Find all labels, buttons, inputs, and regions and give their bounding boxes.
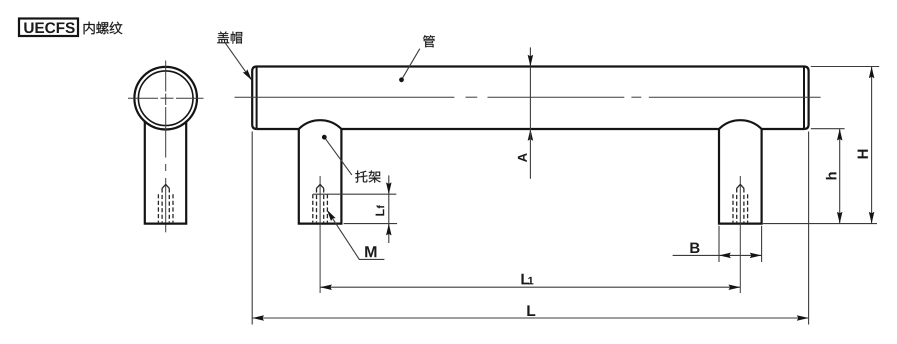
leader line for tube label: [402, 49, 420, 80]
label 托架: [355, 171, 367, 183]
tube outline: [252, 67, 808, 130]
thread side view major dia hidden lines: [157, 194, 159, 222]
label B: [690, 243, 699, 253]
side view stem left edge: [144, 122, 146, 223]
L right extension line: [808, 132, 810, 325]
side view stem right edge: [185, 122, 187, 223]
right cap seam: [803, 67, 805, 129]
dimension A line through tube: [529, 67, 531, 130]
right bracket dome top: [719, 120, 762, 129]
leader line for bracket label: [324, 137, 352, 175]
B left extension line: [718, 226, 720, 262]
bottom extension line right segment: [763, 223, 877, 225]
right bracket bottom edge: [718, 223, 763, 225]
right bracket right edge: [760, 129, 762, 223]
right bracket centerline: [739, 176, 741, 293]
label A: [518, 153, 527, 162]
left cap seam: [256, 67, 258, 129]
label 盖帽: [217, 31, 229, 43]
label L: [527, 305, 535, 316]
left bracket right edge: [340, 129, 342, 223]
side view horizontal centerline: [128, 97, 158, 99]
Lf top extension line: [313, 193, 396, 195]
H dimension line: [871, 67, 873, 224]
L dimension line: [252, 317, 808, 319]
side view stem bottom: [144, 223, 188, 225]
bottom extension line left segment: [344, 223, 398, 225]
B dimension line: [673, 254, 762, 256]
left bracket centerline: [319, 176, 321, 293]
label h: [826, 172, 837, 179]
side view inner circle: [138, 71, 193, 126]
L left extension line: [251, 132, 253, 325]
left bracket left edge: [298, 129, 300, 223]
leader line for cap label: [225, 43, 251, 79]
leader line for M label: [328, 212, 384, 260]
thread right bracket major dia hidden lines: [732, 194, 734, 222]
dimension A stem below: [529, 129, 531, 179]
left bracket dome top: [299, 120, 342, 129]
thread right bracket drill point: [737, 184, 744, 188]
h top extension line: [811, 128, 845, 130]
label Lf: [376, 205, 385, 216]
thread right bracket minor dia hidden lines: [736, 188, 738, 222]
tube bottom edge segments: [257, 128, 299, 130]
label 管: [423, 35, 435, 47]
thread left bracket minor dia hidden lines: [316, 188, 318, 222]
thread side view minor dia hidden lines: [161, 188, 163, 222]
label 内螺纹: [84, 22, 95, 35]
side view outer circle: [134, 67, 197, 130]
thread left bracket drill point: [317, 184, 324, 188]
label M: [365, 246, 376, 257]
right bracket left edge: [718, 129, 720, 223]
B right extension line: [761, 226, 763, 262]
side view vertical centerline: [165, 61, 167, 92]
tube centerline: [235, 96, 455, 98]
label L1: [521, 274, 529, 285]
h dimension line: [839, 129, 841, 224]
H top extension line: [811, 66, 879, 68]
Lf dimension line: [388, 175, 390, 243]
thread left bracket major dia hidden lines: [312, 194, 314, 222]
thread side view drill point: [162, 184, 169, 188]
UECFS title text: [24, 22, 33, 33]
L1 dimension line: [320, 286, 740, 288]
dimension A stem above: [529, 47, 531, 66]
label H: [858, 150, 868, 159]
left bracket bottom edge: [298, 223, 343, 225]
UECFS title box: [19, 19, 78, 37]
